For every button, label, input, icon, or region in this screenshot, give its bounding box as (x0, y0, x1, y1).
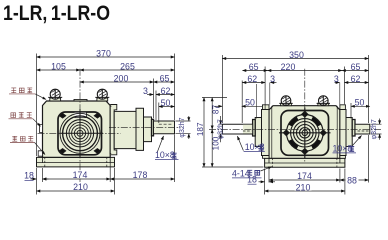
svg-text:65: 65 (249, 62, 259, 72)
bolt diamond N (302, 111, 308, 117)
ext line left cap face x255.5 (264, 67, 266, 110)
left shaft keyway dashes (243, 130, 252, 132)
vertical dim 187 (203, 98, 205, 168)
dim 65 right (342, 70, 369, 72)
dim 220 (268, 70, 343, 72)
phi32h7 left dim (220, 116, 222, 124)
dim 350 (222, 58, 368, 60)
svg-text:200: 200 (114, 73, 129, 83)
phi32h7 right dim (379, 119, 381, 125)
ext line shaft end x174.5 (174, 54, 176, 121)
right flange right view (340, 110, 346, 156)
text 210 (72, 183, 89, 191)
oil level gauge on left wall (40, 125, 43, 133)
bearing cap left view (144, 117, 152, 142)
bolt diamond NW (60, 113, 66, 118)
ext line right tip bottom x368.5 (368, 135, 370, 183)
left flange right view (262, 110, 270, 156)
base bolt hole dashed right (336, 158, 338, 168)
cylinder housing left view (114, 111, 136, 148)
svg-text:178: 178 (133, 170, 148, 180)
text 210 bottom (295, 183, 312, 191)
ext line box left x42.5 (42, 168, 44, 182)
dim 62 (156, 94, 175, 96)
worm slot at plate top (75, 112, 87, 117)
svg-text:65: 65 (351, 62, 361, 72)
svg-text:φ32h7: φ32h7 (371, 119, 378, 139)
dim 210 bottom (265, 190, 345, 192)
dim 105 (37, 69, 81, 71)
flange A left view (110, 106, 114, 154)
vertical dim 100 (211, 129, 213, 167)
flange B left view (136, 108, 144, 150)
ext line box right bottom x339.9 (339, 169, 341, 183)
dim 50 right keyway (351, 105, 370, 107)
svg-text:50: 50 (245, 98, 255, 108)
crosshair solid right view (279, 108, 331, 159)
svg-text:50: 50 (161, 98, 171, 108)
svg-text:3: 3 (143, 86, 148, 96)
svg-text:3: 3 (270, 74, 275, 84)
svg-text:18: 18 (24, 171, 34, 181)
dim 3 left (outside arrow) (270, 82, 276, 84)
label 10x8 key right shaft (333, 136, 362, 154)
dim 174 bottom (269, 179, 340, 181)
drain plug bottom-left (38, 151, 42, 156)
ext line base left x264.6 (264, 169, 266, 195)
right cap right view (346, 118, 352, 147)
top boss between plugs (74, 99, 87, 101)
svg-text:φ32h7: φ32h7 (179, 117, 186, 137)
text 174 (72, 171, 89, 179)
right flange bottom tab (340, 156, 346, 159)
svg-text:174: 174 (73, 170, 88, 180)
label you liang ji (oil gauge) (9, 113, 41, 127)
svg-text:187: 187 (196, 122, 205, 136)
phi32h7 dim line (188, 116, 190, 121)
bolt diamond S (302, 149, 308, 155)
face plate (rounded square) left view (58, 112, 102, 155)
svg-text:62: 62 (351, 74, 361, 84)
dim 62 right (345, 82, 369, 84)
output shaft left view (154, 121, 175, 134)
label zhu you sai (oil fill plug) (9, 88, 46, 100)
svg-text:210: 210 (296, 182, 311, 192)
svg-text:350: 350 (289, 50, 304, 60)
svg-text:370: 370 (96, 48, 111, 58)
bolt diamond W (283, 130, 289, 136)
ext line base right x344.9 (344, 169, 346, 195)
dim texts right view (196, 50, 378, 193)
oil fill plug right (95, 89, 109, 101)
ext line right shaft tip x368.5 (368, 55, 370, 123)
ext line bottom y167 (202, 166, 264, 168)
left flange top tab (263, 105, 270, 110)
phi32h7 ext lines (176, 121, 191, 134)
bolt diamond NE (94, 113, 100, 118)
dim 65 top (154, 81, 175, 83)
ext line cap face x153.5 (153, 79, 155, 119)
dim 62 left (243, 82, 266, 84)
right flange top tab (340, 105, 346, 110)
dim 370 (37, 56, 175, 58)
wheel horizontal centerline (38, 132, 121, 134)
ext line box right x110.2 (109, 162, 111, 182)
right shaft keyway dashes (358, 130, 369, 132)
svg-text:87: 87 (211, 105, 220, 115)
dim 88 bottom (340, 179, 369, 181)
vertical dim 87 (211, 98, 213, 130)
svg-text:65: 65 (160, 73, 170, 83)
base bolt hole dashed right (106, 157, 108, 167)
ext line top y97.5 (202, 97, 227, 99)
svg-text:88: 88 (347, 175, 357, 185)
svg-text:φ32h7: φ32h7 (218, 119, 225, 139)
ext line keyway x158.8 (158, 103, 160, 124)
right cap face bold (352, 120, 355, 137)
dim 178 bottom (110, 178, 174, 180)
cap face bold left view (152, 119, 154, 136)
svg-text:220: 220 (281, 62, 296, 72)
worm axis centerline (109, 126, 181, 128)
label fang you sai (drain plug) (10, 136, 45, 154)
ext line base right x114.5 (114, 168, 116, 195)
bolt diamond SW (60, 149, 66, 154)
text 174 bottom (296, 172, 313, 180)
ext line shoulder x156 (155, 91, 157, 121)
svg-text:174: 174 (297, 171, 312, 181)
left cap right view (255, 118, 261, 147)
dim 3 (outside arrows) (147, 94, 153, 96)
bolt diamond SE (94, 149, 100, 154)
ext line right keyway x351 (350, 103, 352, 119)
dim 174 bottom (43, 178, 111, 180)
base bolt hole dashed left (44, 157, 46, 167)
phi32h7 right ext lines (371, 124, 382, 134)
svg-text:105: 105 (51, 61, 66, 71)
main housing box left view (43, 101, 111, 157)
shafts horizontal centerline (209, 128, 381, 130)
crosshair solid left view (60, 109, 104, 158)
right shaft right view (355, 124, 370, 134)
oil fill plug left (circle with hatch) (48, 89, 62, 101)
corner rib arc NW (290, 118, 297, 125)
face plate (rounded square) right view (281, 111, 329, 156)
label 10x8 key left shaft (237, 136, 264, 152)
dim 65 left (243, 70, 268, 72)
vertical centerline right view (304, 69, 306, 162)
dim 18 bottom (outside arrows) (259, 181, 265, 183)
svg-text:1-LR, 1-LR-O: 1-LR, 1-LR-O (3, 1, 110, 25)
dim 200 (80, 81, 154, 83)
ext line left edge x36.5 (36, 54, 38, 157)
dim 210 bottom (37, 190, 115, 192)
svg-text:4-14: 4-14 (232, 169, 250, 179)
dim 50 keyway (159, 106, 175, 108)
concentric circles right view (287, 115, 324, 152)
base bolt hole dashed left (4-14 drill) (272, 158, 274, 168)
dim 50 left keyway (215, 105, 223, 107)
top plug left (right view) (279, 96, 292, 106)
text 88 bottom (346, 177, 359, 185)
svg-text:62: 62 (247, 74, 257, 84)
ext line left shaft tip x222.4 (221, 55, 223, 123)
corner rib arc SW (290, 140, 297, 147)
dim 265 (80, 69, 175, 71)
dim 3 right (outside arrow) (335, 82, 340, 84)
flange A bottom tab (110, 150, 117, 155)
base plate left view (37, 157, 115, 167)
svg-text:62: 62 (161, 86, 171, 96)
wheel vertical centerline (79, 69, 81, 183)
dim 18 bottom (outside arrows) (31, 178, 37, 180)
svg-text:265: 265 (120, 61, 135, 71)
base plate right view (265, 158, 345, 167)
svg-text:10×8: 10×8 (333, 144, 353, 154)
bolt diamond E (320, 130, 326, 136)
left cap face bold (253, 120, 256, 137)
concentric circles left view (60, 113, 100, 153)
top plug right (right view) (317, 96, 330, 106)
left shaft right view (222, 124, 252, 134)
svg-text:50: 50 (355, 98, 365, 108)
keyway hidden line on shaft (159, 123, 173, 125)
ext line right cap face x341.5 (344, 67, 346, 105)
label 10x8 key left view (155, 136, 179, 160)
label 4-14 drill holes (232, 167, 272, 179)
ext line left keyway x241.8 (241, 81, 243, 124)
svg-text:210: 210 (73, 182, 88, 192)
ext line box left bottom x269 (268, 169, 270, 183)
inner wall lines (272, 106, 337, 158)
left flange bottom tab (263, 156, 270, 159)
main housing box right view (269, 106, 340, 159)
corner rib arc NE (312, 118, 319, 125)
corner rib arc SE (312, 140, 319, 147)
dim texts left view (24, 48, 186, 192)
svg-text:3: 3 (334, 74, 339, 84)
flange A top tab (110, 105, 117, 110)
